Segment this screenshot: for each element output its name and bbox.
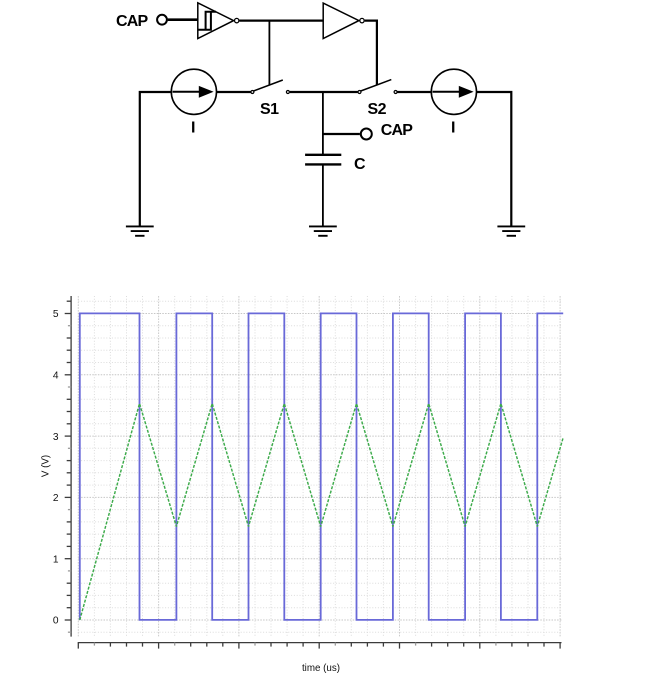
capacitor C1	[305, 155, 341, 165]
svg-text:V (V): V (V)	[40, 455, 51, 477]
switch S1	[251, 80, 290, 94]
y axis	[65, 296, 71, 637]
wire: left rail to ground	[140, 92, 171, 226]
waveform chart grid	[78, 296, 562, 637]
svg-text:5: 5	[53, 309, 59, 320]
ground (right)	[497, 226, 525, 235]
op-amp U1 (Schmitt-trigger inverter)	[198, 3, 234, 39]
wire: CAP port to U1 input	[168, 18, 198, 21]
svg-text:I: I	[451, 120, 455, 137]
svg-text:1: 1	[53, 554, 59, 565]
U2 output bubble	[360, 18, 364, 22]
svg-text:I: I	[191, 120, 195, 137]
svg-text:0: 0	[53, 616, 59, 627]
wire: S1 to S2 through node C (cap node)	[290, 91, 358, 93]
output port circle CAP	[361, 129, 372, 140]
svg-text:C: C	[354, 156, 366, 173]
y axis tick labels	[53, 309, 59, 627]
wire: capacitor to ground	[322, 166, 324, 227]
current source I (right)	[431, 69, 476, 114]
wire: branch to CAP output port	[323, 133, 360, 135]
svg-text:S2: S2	[368, 101, 387, 118]
x axis	[78, 643, 562, 649]
svg-text:S1: S1	[260, 101, 279, 118]
wire: S2 to right current source	[397, 91, 431, 93]
switch S2	[358, 80, 397, 94]
current source I (left)	[171, 69, 216, 114]
node CAP waveform (blue square wave)	[80, 313, 563, 620]
input port circle CAP	[157, 15, 167, 25]
ground (middle)	[309, 226, 337, 235]
svg-text:2: 2	[53, 493, 59, 504]
node C waveform (green triangle wave)	[80, 404, 563, 620]
svg-text:time (us): time (us)	[302, 663, 340, 674]
op-amp U2 (inverter buffer)	[323, 3, 359, 38]
ground (left)	[126, 226, 154, 235]
wire: U1 output to U2 input (node A)	[239, 20, 323, 22]
wire: S1 control drop from node A	[268, 21, 270, 85]
svg-text:3: 3	[53, 432, 59, 443]
wire: right source to right rail to ground	[477, 92, 512, 226]
wire: node C vertical (switch rail to capacitor)	[322, 92, 324, 154]
svg-text:4: 4	[53, 371, 59, 382]
wire: left source to S1	[217, 91, 251, 93]
wire: U2 output to S2 control	[365, 21, 377, 85]
U1 output bubble	[235, 18, 239, 22]
svg-text:CAP: CAP	[381, 122, 414, 139]
svg-text:CAP: CAP	[116, 13, 149, 30]
